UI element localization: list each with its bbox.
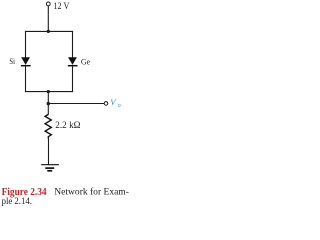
node junction bottom — [47, 90, 50, 93]
wire bottom rail to output node — [47, 92, 49, 104]
svg-text:12 V: 12 V — [53, 1, 69, 12]
diode D2 Ge — [68, 57, 78, 65]
label 2.2 kOhm — [55, 120, 81, 130]
svg-text:ple 2.14.: ple 2.14. — [2, 196, 32, 206]
output terminal — [104, 102, 108, 106]
node junction top — [47, 30, 50, 33]
wire resistor to ground — [48, 139, 50, 165]
ground — [41, 165, 59, 171]
wire left branch anode — [25, 31, 27, 58]
svg-text:V: V — [110, 97, 117, 107]
svg-text:o: o — [118, 102, 121, 109]
wire right branch cathode — [72, 66, 74, 92]
svg-text:Network for Exam-: Network for Exam- — [54, 187, 129, 197]
wire top rail — [25, 30, 73, 32]
wire left branch cathode — [25, 66, 27, 92]
caption figure number — [2, 187, 47, 198]
diode D1 Si — [21, 57, 31, 65]
caption line 1 text — [54, 187, 129, 197]
supply terminal E — [46, 2, 50, 6]
wire supply to top rail — [47, 6, 49, 32]
label Ge — [81, 56, 90, 66]
resistor R1 2.2 kOhm — [45, 114, 51, 138]
svg-text:2.2 kΩ: 2.2 kΩ — [55, 120, 81, 130]
label Vo — [110, 97, 120, 109]
label Si — [9, 56, 15, 66]
svg-text:Si: Si — [9, 56, 15, 66]
wire output node to terminal — [48, 103, 104, 105]
wire node to resistor — [47, 104, 49, 115]
wire bottom rail — [25, 91, 73, 93]
node Vo junction — [47, 102, 50, 105]
label 12 V — [53, 1, 69, 12]
caption line 2 text — [2, 196, 32, 206]
svg-text:Ge: Ge — [81, 56, 90, 66]
wire right branch anode — [72, 31, 74, 58]
